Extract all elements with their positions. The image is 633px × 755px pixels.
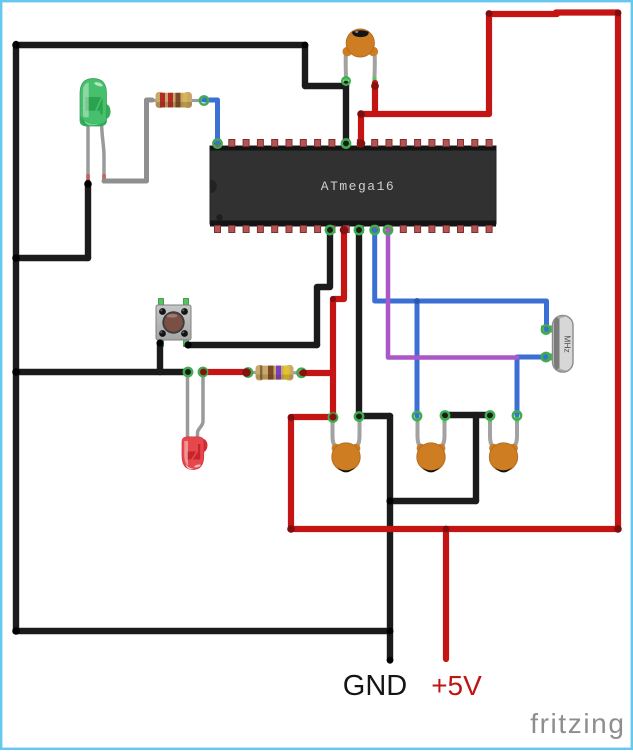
wire red drop to U1 VCC pin (358, 114, 364, 143)
wire black GND jog to C1 left leg (305, 83, 346, 89)
ground net black wires (16, 44, 490, 661)
wire black GND rail to LED D2 cathode (16, 369, 188, 375)
capacitor C4 (488, 415, 519, 472)
wire red C1 right leg drop (372, 83, 378, 114)
wire black LED D1 cathode to rail (16, 255, 88, 261)
capacitor C3 load cap (415, 415, 446, 472)
wire red +5V stub (443, 529, 449, 659)
crystal Y1 MHz (542, 316, 574, 373)
wire black GND bottom horizontal (16, 628, 390, 634)
LED D1 green (80, 79, 111, 184)
wire red top horizontal segment 1 (489, 11, 557, 17)
wire red +5V horizontal under C1 (361, 111, 489, 117)
wire red LED D2 anode to R2 (203, 369, 248, 375)
wire black U1 pin to button jog (317, 230, 330, 345)
resistor R2 (246, 365, 303, 381)
wire purple U1 XTAL2 pin to crystal pin 2 net (388, 230, 517, 358)
signal net blue wires (204, 100, 547, 416)
wire blue R1 to U1 pin 1 (204, 100, 218, 143)
wire red top horizontal segment 2 (556, 9, 618, 15)
LED D2 red (182, 374, 208, 470)
junction blue tee (414, 298, 420, 304)
+5V net red wires (203, 13, 618, 660)
connection rings green (184, 77, 550, 422)
wire black LED D1 cathode drop (85, 183, 91, 258)
wire black U1 pin to C2 right leg (356, 230, 362, 416)
red wire corner junctions (287, 10, 622, 533)
wire red jog to C2 left leg (291, 414, 333, 420)
wire blue crystal pin 2 to C4 right leg (517, 357, 546, 415)
wire red left riser (288, 417, 294, 529)
IC U1 ATmega16 (210, 140, 496, 233)
wire red riser to top (486, 14, 492, 114)
wire red U1 pin to C2 left leg vertical (333, 230, 344, 417)
wire black C2 right leg to GND rail (359, 413, 390, 419)
resistor R1 (146, 92, 203, 108)
wire black button right pin horizontal (188, 342, 317, 348)
wire red bottom horizontal rail (291, 526, 618, 532)
wire blue tee to C3 left leg (415, 301, 420, 416)
wire black C1 left leg to U1 pin (343, 84, 349, 143)
svg-text:GND: GND (343, 670, 407, 702)
wire black GND stub vertical (387, 416, 393, 661)
wire black button left pin drop (157, 343, 163, 372)
capacitor C2 load cap (330, 415, 361, 472)
svg-text:fritzing: fritzing (530, 708, 625, 739)
svg-text:MHz: MHz (562, 335, 572, 352)
red wire end dots (200, 82, 379, 421)
svg-text:+5V: +5V (431, 670, 482, 701)
wire black GND top horizontal (16, 42, 305, 48)
wire black GND top jog vertical (302, 45, 308, 86)
wire red R2 right lead to +5V riser (302, 370, 333, 376)
black wire corner junctions (12, 41, 393, 663)
capacitor C1 ceramic (343, 29, 379, 84)
svg-text:ATmega16: ATmega16 (321, 179, 395, 194)
wire black load caps ground tee horizontal (390, 498, 476, 504)
wire black GND left vertical rail (13, 44, 19, 631)
wire black C3 right leg to C4 left leg (445, 412, 490, 418)
wire black load caps ground tee vertical (473, 415, 479, 501)
wire blue U1 XTAL pin to crystal pin 1 (375, 230, 547, 330)
wire red right vertical rail (615, 13, 621, 530)
pushbutton S1 (156, 299, 191, 347)
wire gray LED D1 anode to R1 (104, 100, 152, 181)
